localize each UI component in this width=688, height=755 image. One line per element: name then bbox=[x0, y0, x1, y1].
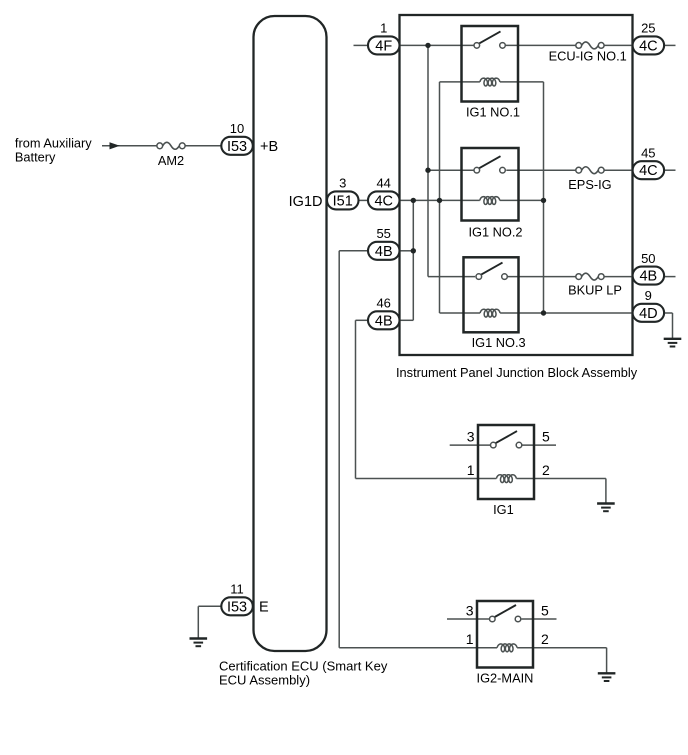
svg-text:from Auxiliary: from Auxiliary bbox=[15, 135, 92, 150]
svg-text:4D: 4D bbox=[639, 306, 658, 322]
svg-text:Certification ECU (Smart Key: Certification ECU (Smart Key bbox=[219, 658, 388, 673]
svg-text:4C: 4C bbox=[639, 163, 658, 179]
svg-text:2: 2 bbox=[541, 631, 549, 647]
svg-text:2: 2 bbox=[542, 462, 550, 478]
svg-text:4C: 4C bbox=[639, 38, 658, 54]
svg-text:E: E bbox=[259, 600, 269, 616]
svg-text:46: 46 bbox=[376, 296, 390, 311]
svg-text:4C: 4C bbox=[374, 193, 393, 209]
svg-text:I51: I51 bbox=[333, 193, 353, 209]
svg-text:Instrument Panel Junction Bloc: Instrument Panel Junction Block Assembly bbox=[396, 365, 638, 380]
svg-text:IG2-MAIN: IG2-MAIN bbox=[477, 671, 534, 686]
svg-text:IG1 NO.2: IG1 NO.2 bbox=[468, 225, 522, 240]
svg-text:4B: 4B bbox=[375, 244, 393, 260]
svg-text:I53: I53 bbox=[227, 139, 247, 155]
svg-text:ECU Assembly): ECU Assembly) bbox=[219, 673, 310, 688]
svg-text:55: 55 bbox=[376, 226, 390, 241]
svg-text:AM2: AM2 bbox=[158, 153, 184, 168]
svg-text:5: 5 bbox=[542, 429, 550, 445]
svg-text:EPS-IG: EPS-IG bbox=[568, 177, 611, 192]
svg-text:ECU-IG NO.1: ECU-IG NO.1 bbox=[549, 49, 627, 64]
svg-text:10: 10 bbox=[230, 121, 244, 136]
svg-text:IG1: IG1 bbox=[493, 502, 514, 517]
svg-text:45: 45 bbox=[641, 145, 655, 160]
svg-text:4F: 4F bbox=[375, 38, 392, 54]
svg-text:1: 1 bbox=[466, 631, 474, 647]
svg-text:BKUP LP: BKUP LP bbox=[568, 283, 622, 298]
svg-text:9: 9 bbox=[645, 288, 652, 303]
svg-text:3: 3 bbox=[467, 429, 475, 445]
svg-text:5: 5 bbox=[541, 603, 549, 619]
svg-text:1: 1 bbox=[380, 21, 387, 36]
svg-text:3: 3 bbox=[339, 176, 346, 191]
svg-text:4B: 4B bbox=[639, 269, 657, 285]
svg-text:50: 50 bbox=[641, 251, 655, 266]
svg-text:I53: I53 bbox=[227, 599, 247, 615]
svg-text:11: 11 bbox=[230, 582, 244, 597]
svg-text:3: 3 bbox=[466, 603, 474, 619]
svg-text:Battery: Battery bbox=[15, 149, 56, 164]
svg-text:+B: +B bbox=[260, 139, 278, 155]
svg-text:IG1 NO.3: IG1 NO.3 bbox=[472, 335, 526, 350]
svg-text:1: 1 bbox=[467, 462, 475, 478]
svg-text:IG1D: IG1D bbox=[289, 194, 323, 210]
svg-text:IG1 NO.1: IG1 NO.1 bbox=[466, 105, 520, 120]
svg-text:44: 44 bbox=[376, 176, 390, 191]
svg-text:25: 25 bbox=[641, 21, 655, 36]
svg-text:4B: 4B bbox=[375, 313, 393, 329]
